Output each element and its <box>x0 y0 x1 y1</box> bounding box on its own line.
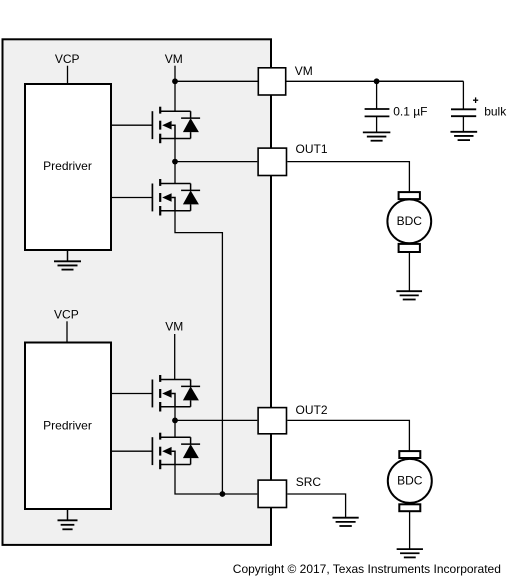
svg-text:OUT2: OUT2 <box>296 403 328 417</box>
channel segments <box>159 107 161 114</box>
anode triangle <box>183 118 199 132</box>
motor 2 body circle <box>388 459 432 503</box>
channel segments <box>159 433 161 440</box>
source bar <box>160 210 190 212</box>
cathode bar <box>181 385 200 387</box>
bulk cap plates <box>451 108 476 110</box>
transistor M4 (low-side, half-bridge 2) (N-channel MOSFET) <box>112 433 191 470</box>
svg-text:VM: VM <box>165 52 183 66</box>
drain bar <box>160 436 190 438</box>
wire VM lead down to M3 drain <box>174 334 176 380</box>
wire VCP lead (bottom) <box>66 321 68 341</box>
gate bar <box>151 184 153 212</box>
body diode of M2 (low-side, half-bridge 1) <box>181 184 200 211</box>
svg-text:BDC: BDC <box>397 214 423 228</box>
junction dot (OUT1 node) <box>172 159 178 165</box>
wire predriver 2 ground stem <box>67 509 69 520</box>
gate bar <box>151 111 153 139</box>
cathode bar <box>181 443 200 445</box>
pin OUT1 (terminal box) <box>258 148 286 175</box>
pin SRC (terminal box) <box>258 480 286 507</box>
body arrow <box>162 193 171 202</box>
source bar <box>160 406 190 408</box>
wire pin SRC to ground <box>287 494 345 518</box>
wire predriver 1 ground stem <box>67 250 69 261</box>
gate lead wire <box>112 124 152 126</box>
wire VM node to pin VM <box>175 80 258 82</box>
wire M1 source to OUT1 node <box>174 139 176 162</box>
svg-text:0.1 µF: 0.1 µF <box>393 104 427 118</box>
body diode of M1 (high-side, half-bridge 1) <box>181 111 200 138</box>
body-source tie <box>172 125 175 138</box>
motor 1 top terminal <box>399 192 420 199</box>
wire M4 source to SRC node <box>175 465 222 495</box>
body diode of M4 (low-side, half-bridge 2) <box>181 437 200 464</box>
svg-text:OUT1: OUT1 <box>296 142 328 156</box>
gate lead wire <box>112 197 152 199</box>
channel segments <box>159 179 161 186</box>
capacitor 0.1 uF <box>365 81 390 132</box>
drain bar <box>160 183 190 185</box>
source bar <box>160 138 190 140</box>
bulk capacitor (electrolytic) <box>377 81 479 132</box>
predriver block 2 <box>25 343 111 510</box>
transistor M2 (low-side, half-bridge 1) (N-channel MOSFET) <box>112 179 191 216</box>
drain bar <box>160 110 190 112</box>
wire cap top lead <box>376 81 378 109</box>
device outline (gray IC boundary) <box>3 39 272 545</box>
motor 2 top terminal <box>399 451 420 458</box>
wire VM lead down to M1 drain <box>174 66 176 112</box>
gate lead wire <box>112 393 152 395</box>
svg-text:VCP: VCP <box>55 52 80 66</box>
motor BDC 2 <box>388 451 432 511</box>
source bar <box>160 464 190 466</box>
wire pin VM to capacitors <box>287 80 464 82</box>
wire OUT2 node to M4 drain <box>174 420 176 437</box>
svg-text:BDC: BDC <box>397 473 423 487</box>
wire OUT1 node to M2 drain <box>174 162 176 184</box>
wire cap bottom lead <box>376 116 378 132</box>
svg-text:VCP: VCP <box>54 307 79 321</box>
wire bulk cap bottom lead <box>462 116 464 132</box>
svg-text:VM: VM <box>165 320 183 334</box>
ground (SRC external ground) <box>333 518 359 526</box>
transistor M1 (high-side, half-bridge 1) (N-channel MOSFET) <box>112 107 191 144</box>
anode triangle <box>183 386 199 400</box>
svg-text:bulk: bulk <box>484 105 507 119</box>
body arrow <box>162 389 171 398</box>
svg-text:VM: VM <box>295 64 313 78</box>
predriver block 1 <box>25 84 111 250</box>
junction dot (VM / 0.1uF cap) <box>374 78 380 84</box>
body-source tie <box>172 451 175 464</box>
svg-text:Predriver: Predriver <box>43 418 92 432</box>
wire bulk cap top lead <box>377 80 464 82</box>
junction dot (SRC node) <box>220 491 226 497</box>
pin OUT2 (terminal box) <box>258 408 286 434</box>
body diode of M3 (high-side, half-bridge 2) <box>181 380 200 407</box>
anode triangle <box>183 190 199 204</box>
ground (under motor 2) <box>397 549 423 557</box>
plus polarity mark <box>473 99 478 101</box>
body arrow <box>162 121 171 130</box>
svg-text:Copyright © 2017, Texas Instru: Copyright © 2017, Texas Instruments Inco… <box>233 562 501 576</box>
wire SRC node to pin SRC <box>222 493 257 495</box>
gate bar <box>151 380 153 408</box>
motor 1 body circle <box>387 199 431 243</box>
body-source tie <box>172 198 175 211</box>
motor 1 bottom terminal <box>399 244 420 252</box>
pin VM (terminal box) <box>258 68 285 95</box>
body-source tie <box>172 394 175 407</box>
junction dot (VM node) <box>172 78 178 84</box>
junction dot (OUT2 node) <box>172 418 178 424</box>
cathode bar <box>181 117 200 119</box>
channel segments <box>159 375 161 382</box>
ground (under predriver 2) <box>58 520 78 529</box>
wire OUT2 node to pin OUT2 <box>175 419 257 421</box>
anode triangle <box>183 444 199 458</box>
wire pin OUT2 to motor 2 <box>287 420 409 450</box>
wire pin OUT1 to motor 1 <box>287 162 409 192</box>
svg-text:Predriver: Predriver <box>43 159 92 173</box>
wire motor 2 to ground <box>409 512 411 550</box>
wire OUT1 node to pin OUT1 <box>175 161 257 163</box>
ground (under 0.1uF cap) <box>363 132 391 140</box>
ground (under predriver 1) <box>54 261 81 269</box>
ground (under bulk cap) <box>450 132 477 140</box>
wire M2 source to SRC bus <box>175 211 222 494</box>
motor 2 bottom terminal <box>399 504 420 511</box>
svg-text:SRC: SRC <box>296 475 322 489</box>
wire M3 source to OUT2 node <box>174 407 176 421</box>
cathode bar <box>181 189 200 191</box>
ground (under motor 1) <box>396 291 422 299</box>
wire VCP lead (top) <box>67 66 69 83</box>
transistor M3 (high-side, half-bridge 2) (N-channel MOSFET) <box>112 375 191 412</box>
body arrow <box>162 447 171 456</box>
gate lead wire <box>112 450 152 452</box>
cap plates <box>365 108 390 110</box>
gate bar <box>151 437 153 465</box>
drain bar <box>160 379 190 381</box>
wire motor 1 to ground <box>408 253 410 291</box>
motor BDC 1 <box>387 192 431 252</box>
